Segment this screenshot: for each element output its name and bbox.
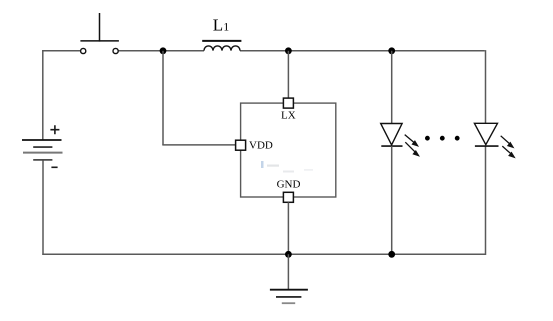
inductor L1 bbox=[202, 41, 241, 51]
wire top rail from switch to inductor bbox=[118, 50, 204, 52]
node junction at switch/VDD branch bbox=[160, 47, 167, 54]
IC U1 body bbox=[241, 103, 336, 197]
wire top rail from inductor to top-right corner bbox=[240, 50, 485, 52]
node junction at LED D1 top bbox=[388, 47, 395, 54]
wire LED D1 cathode vertical bbox=[391, 146, 393, 254]
node junction GND at bottom rail bbox=[285, 251, 292, 258]
svg-text:VDD: VDD bbox=[249, 140, 273, 152]
pin VDD (left) bbox=[236, 140, 246, 150]
svg-text:LX: LX bbox=[281, 110, 296, 122]
wire LX branch vertical bbox=[287, 51, 289, 98]
wire top rail left segment (battery to switch contact) bbox=[42, 50, 81, 52]
svg-text:L1: L1 bbox=[213, 16, 229, 35]
wire GND branch vertical bbox=[287, 202, 289, 254]
pushbutton switch S1 bbox=[80, 13, 119, 54]
pin LX (top) bbox=[283, 98, 293, 108]
svg-text:GND: GND bbox=[277, 179, 301, 191]
ellipsis dots (more LEDs) bbox=[425, 136, 460, 141]
wire right vertical (top-right corner to LED D2 anode) bbox=[485, 50, 487, 123]
wire left vertical (battery - to bottom rail) bbox=[42, 160, 44, 255]
wire bottom rail bbox=[42, 253, 485, 255]
wire VDD branch vertical bbox=[162, 51, 164, 145]
pin GND (bottom) bbox=[283, 192, 293, 202]
node junction LED D1 at bottom rail bbox=[388, 251, 395, 258]
battery BT1 bbox=[22, 125, 63, 167]
node junction at LX branch bbox=[285, 47, 292, 54]
ground symbol bbox=[270, 254, 308, 303]
LED D1 bbox=[381, 124, 403, 147]
wire right vertical (LED D2 cathode to bottom-right corner) bbox=[485, 146, 487, 255]
LED D1 emission arrows bbox=[405, 135, 420, 157]
LED D2 emission arrows bbox=[501, 136, 515, 158]
faint watermark remnants inside IC bbox=[261, 161, 313, 173]
wire LED D1 anode vertical bbox=[391, 51, 393, 124]
wire left vertical (top rail to battery +) bbox=[42, 50, 44, 140]
wire VDD branch horizontal bbox=[162, 144, 235, 146]
LED D2 bbox=[474, 123, 498, 146]
